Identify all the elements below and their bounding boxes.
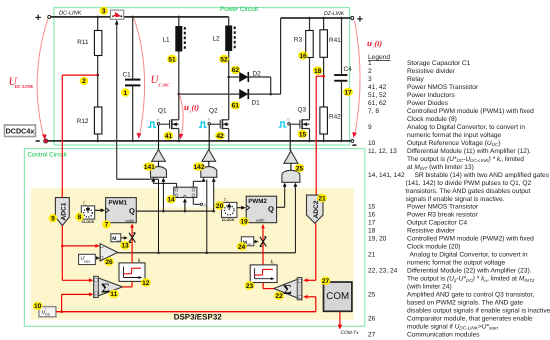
summation block 11 — [94, 276, 123, 297]
white notch in DSP background around SR bistable — [160, 188, 214, 207]
svg-text:15: 15 — [299, 131, 307, 138]
wire: PWM2 width input red with limiter 24 — [262, 226, 264, 265]
wire: amplifier 12 output through limiter 13 to PWM1 — [131, 225, 133, 263]
limiter 13 symbol — [129, 233, 135, 243]
marker 14 — [166, 195, 176, 203]
svg-text:3: 3 — [102, 8, 106, 15]
wire: SR constant 1 input — [192, 198, 194, 205]
svg-text:C-DC: C-DC — [159, 83, 171, 88]
wire: AND25 input arrows — [284, 185, 286, 208]
svg-text:COM-Tx: COM-Tx — [341, 330, 360, 336]
svg-text:11, 12, 13: 11, 12, 13 — [368, 148, 397, 155]
svg-text:10: 10 — [34, 303, 42, 310]
svg-text:Power Diodes: Power Diodes — [407, 100, 449, 107]
capacitor C1 — [132, 17, 134, 79]
wire: ADC2 output into summator 22 — [315, 223, 317, 280]
svg-text:1: 1 — [123, 90, 127, 97]
svg-text:DSP3/ESP32: DSP3/ESP32 — [174, 313, 223, 322]
limit box M_INT — [111, 234, 121, 242]
svg-text:142: 142 — [193, 164, 204, 171]
svg-text:DC-LINK: DC-LINK — [14, 84, 34, 89]
svg-text:23: 23 — [246, 283, 254, 290]
wire: AND141 input arrows — [152, 180, 154, 184]
svg-text:Control Circuit: Control Circuit — [28, 152, 67, 159]
gate pulse waveform for Q2 — [199, 122, 207, 127]
svg-text:7, 8: 7, 8 — [368, 108, 379, 115]
svg-text:u: u — [367, 38, 372, 48]
wire: bottom negative rail — [48, 140, 352, 142]
svg-text:41, 42: 41, 42 — [368, 84, 387, 91]
svg-text:DC: DC — [45, 312, 50, 316]
svg-text:PWM2: PWM2 — [248, 198, 267, 205]
wire: SR clock riser from PWM1 Q — [184, 202, 186, 212]
svg-text:(t): (t) — [192, 103, 200, 112]
marker 10 — [33, 302, 43, 310]
marker 11 — [109, 290, 119, 298]
svg-text:based on PWM2 signals. The AND: based on PWM2 signals. The AND gate — [407, 300, 523, 307]
AND gate 25 — [290, 163, 292, 171]
svg-text:19: 19 — [240, 219, 248, 226]
svg-text:13: 13 — [121, 243, 129, 250]
svg-text:26: 26 — [368, 316, 376, 323]
marker 18 — [313, 66, 323, 74]
svg-text:17: 17 — [344, 89, 352, 96]
svg-text:+: + — [35, 12, 41, 24]
Power Circuit green border box — [54, 8, 350, 145]
inductor L2 — [228, 17, 230, 26]
svg-text:Power Inductors: Power Inductors — [407, 92, 455, 99]
svg-text:18: 18 — [368, 228, 376, 235]
wire: summator 11 output to amplifier 12 — [123, 286, 133, 288]
marker 24 — [237, 242, 247, 250]
wire: PWM1 Q output line — [136, 210, 213, 212]
svg-text:62: 62 — [232, 67, 240, 74]
transistor Q3 — [287, 107, 309, 130]
svg-text:24: 24 — [238, 244, 246, 251]
svg-text:Differential Module (22) with: Differential Module (22) with Amplifier … — [407, 268, 532, 275]
svg-text:14: 14 — [167, 197, 175, 204]
svg-text:25: 25 — [296, 165, 304, 172]
svg-text:+: + — [299, 295, 301, 299]
svg-text:DZ-LINK: DZ-LINK — [324, 11, 345, 17]
marker 2 — [80, 77, 89, 85]
svg-text:Clock module (8): Clock module (8) — [407, 116, 457, 123]
svg-text:Σ: Σ — [283, 282, 292, 297]
svg-text:16: 16 — [299, 53, 307, 60]
DCDC4x module label box — [5, 125, 36, 137]
minus terminal right — [351, 140, 354, 143]
marker 141 — [143, 162, 155, 170]
svg-text:Output Reference Voltage (UDC​: Output Reference Voltage (UDC​) — [407, 140, 501, 147]
svg-text:61: 61 — [232, 103, 240, 110]
svg-text:C1: C1 — [123, 72, 132, 79]
svg-text:+: + — [357, 13, 363, 25]
svg-text:G: G — [287, 117, 289, 121]
svg-text:Σ: Σ — [101, 280, 110, 295]
resistor R42 — [320, 107, 328, 134]
amplifier 12 k_i — [119, 263, 145, 282]
marker 23 — [245, 281, 255, 289]
svg-text:D1: D1 — [252, 100, 261, 107]
svg-text:Power NMOS Transistor: Power NMOS Transistor — [407, 204, 479, 211]
svg-text:int2: int2 — [247, 243, 252, 246]
capacitor C4 — [341, 18, 343, 74]
svg-text:22: 22 — [275, 293, 283, 300]
gate pulse waveform for Q1 — [148, 122, 156, 127]
wire: Q2 source to rail — [228, 129, 230, 141]
marker 26 — [104, 258, 114, 266]
svg-text:9: 9 — [368, 124, 372, 131]
svg-text:(with limiter 24): (with limiter 24) — [407, 284, 452, 291]
amplifier 23 k_u — [250, 265, 277, 283]
svg-text:module signal if UDC-LINK​>U*s: module signal if UDC-LINK​>U*start​ — [407, 323, 499, 330]
svg-text:(t): (t) — [375, 39, 383, 48]
svg-text:COM: COM — [326, 291, 349, 302]
reference box U*start — [79, 254, 96, 264]
wire: clock20 to PWM2 — [237, 207, 242, 209]
AND gate 142 — [208, 161, 210, 168]
wire: Q1 source to rail — [178, 129, 180, 141]
svg-text:R42: R42 — [329, 114, 341, 121]
wire: diode outputs to DZ-LINK rail — [248, 93, 280, 95]
svg-text:22, 23, 24: 22, 23, 24 — [368, 268, 398, 275]
marker 42 — [215, 132, 225, 140]
svg-text:7: 7 — [105, 222, 109, 229]
svg-text:at MINT​ (with limiter 13): at MINT​ (with limiter 13) — [407, 164, 474, 171]
svg-text:DC-LINK: DC-LINK — [59, 11, 82, 17]
wire: red bus riser into summator 22 — [315, 297, 317, 312]
marker 51 — [167, 55, 177, 63]
svg-text:Communication modules: Communication modules — [407, 331, 480, 338]
resistor R41 — [323, 18, 325, 30]
marker 20 — [215, 201, 225, 209]
svg-text:C4: C4 — [344, 66, 353, 73]
wire: PWM2 Q output to AND25 — [277, 206, 285, 208]
wire: relay enable branch — [117, 178, 159, 180]
svg-text:R41: R41 — [329, 37, 341, 44]
summation block 22 — [274, 278, 302, 300]
svg-text:Power NMOS Transistor: Power NMOS Transistor — [407, 84, 479, 91]
marker 13 — [120, 241, 130, 249]
svg-text:Q: Q — [129, 206, 135, 215]
svg-text:Differential Module (11) with: Differential Module (11) with Amplifier … — [407, 148, 531, 155]
svg-text:transistors. The AND gates dis: transistors. The AND gates disables outp… — [406, 188, 531, 195]
resistor R12 — [94, 107, 102, 134]
gate pulse waveform for Q3 — [279, 122, 287, 127]
relay 3 (box with red switch symbol) — [110, 10, 123, 19]
svg-text:3: 3 — [368, 76, 372, 83]
svg-text:18: 18 — [314, 68, 322, 75]
svg-text:Q1: Q1 — [158, 107, 167, 114]
svg-text:disables output signals if ena: disables output signals if enable signal… — [407, 308, 550, 315]
reference box U*DC (10) — [39, 307, 56, 317]
comparator 26 — [100, 244, 118, 261]
svg-text:16: 16 — [368, 212, 376, 219]
wire: output divider tap (18) red sense line — [316, 75, 323, 77]
marker 142 — [193, 162, 205, 170]
marker 41 — [164, 132, 174, 140]
limit box M_INT2 — [241, 237, 254, 246]
svg-text:Resistive divider: Resistive divider — [407, 68, 456, 75]
svg-text:CLOCK: CLOCK — [222, 218, 235, 222]
marker 8 — [75, 213, 84, 221]
wire: summator 22 output to amplifier 23 — [263, 288, 274, 290]
wire: U*DC red bus — [56, 311, 316, 313]
svg-text:Power R3 break resistor: Power R3 break resistor — [407, 212, 479, 219]
driver buffer 142 — [202, 150, 216, 162]
svg-text:Comparator module, that genera: Comparator module, that generates enable — [407, 316, 533, 323]
svg-text:Storage Capacitor C1: Storage Capacitor C1 — [407, 60, 471, 67]
svg-text:20: 20 — [216, 203, 224, 210]
voltage arc u_s(t) (switch voltage) — [180, 95, 184, 135]
marker 19 — [239, 217, 249, 225]
wire: SR Qbar to AND142 — [192, 181, 194, 187]
svg-text:Resistive divider: Resistive divider — [407, 228, 456, 235]
marker 3 — [99, 7, 108, 15]
clock module 20 (fixed clock for PWM2) — [222, 202, 237, 217]
wire: DZ-LINK top rail right — [281, 17, 351, 19]
wire: U*DC to summator 11 — [61, 294, 63, 311]
svg-text:G: G — [208, 117, 210, 121]
svg-text:52: 52 — [220, 56, 228, 63]
node divider tap junction — [96, 74, 99, 77]
marker 17 — [343, 88, 353, 96]
marker 27 — [321, 277, 331, 285]
marker 21 — [317, 194, 327, 202]
wire: Q3 source to rail — [309, 129, 311, 141]
svg-text:14, 141, 142: 14, 141, 142 — [368, 172, 405, 179]
PWM module PWM1 (7) — [106, 198, 137, 223]
clock module 8 (fixed clock for PWM1) — [81, 206, 94, 219]
wire: buffer25 output to Q3 gate — [289, 125, 291, 151]
svg-text:+: + — [95, 292, 97, 296]
svg-text:19, 20: 19, 20 — [368, 236, 387, 243]
marker 22 — [274, 292, 284, 300]
wire: relay control line from comparator 26 — [116, 24, 118, 179]
svg-text:Clock module (20): Clock module (20) — [407, 244, 461, 251]
marker 7 — [102, 220, 111, 228]
PWM module PWM2 (19) — [246, 196, 276, 223]
inductor L1 — [178, 17, 180, 26]
ADC module ADC2 (21) — [307, 195, 324, 223]
svg-text:Controlled PWM module (PWM1) w: Controlled PWM module (PWM1) with fixed — [407, 108, 534, 115]
wire: branch to comparator 26 — [61, 245, 64, 248]
svg-text:51, 52: 51, 52 — [368, 92, 387, 99]
wire: D2 anode branch from L2/Q2 node — [229, 76, 240, 78]
svg-text:numeric format the input volta: numeric format the input voltage — [407, 132, 502, 139]
wire: D1 anode branch from L1/Q1 node — [179, 93, 239, 95]
svg-text:61, 62: 61, 62 — [368, 100, 387, 107]
svg-text:ADC2: ADC2 — [313, 200, 320, 218]
svg-text:-: - — [299, 279, 300, 283]
svg-text:-: - — [95, 278, 96, 282]
wire: clock8 to PWM1 — [95, 209, 102, 211]
marker 25 — [295, 164, 305, 172]
svg-text:G: G — [157, 117, 159, 121]
svg-text:int: int — [117, 239, 120, 242]
svg-text:signals if enable signal is in: signals if enable signal is inactive. — [406, 196, 505, 203]
svg-text:17: 17 — [368, 220, 376, 227]
resistor divider chain R11/R12 vertical wire — [97, 17, 99, 31]
marker 12 — [141, 278, 151, 286]
svg-text:51: 51 — [168, 56, 176, 63]
svg-text:numeric format the output volt: numeric format the output voltage — [407, 260, 506, 267]
svg-text:Output Capacitor C4: Output Capacitor C4 — [407, 220, 467, 227]
svg-text:u: u — [184, 102, 189, 112]
svg-text:27: 27 — [322, 278, 330, 285]
svg-text:41: 41 — [165, 133, 173, 140]
svg-text:R12: R12 — [77, 118, 89, 125]
marker 15 — [298, 130, 308, 138]
svg-text:The output is (U*DC​-UDC-LINK​: The output is (U*DC​-UDC-LINK​) * ki​, l… — [407, 156, 524, 163]
driver buffer 141 — [152, 150, 166, 162]
limiter 24 symbol — [260, 237, 266, 247]
diode D1 — [239, 89, 248, 99]
svg-text:ADC1: ADC1 — [61, 202, 68, 220]
marker 52 — [219, 55, 229, 63]
wire: DC-LINK top rail — [51, 16, 111, 18]
svg-text:1: 1 — [368, 60, 372, 67]
svg-text:SR bistable (14) with two AND: SR bistable (14) with two AND amplified … — [415, 172, 550, 179]
svg-text:width: width — [126, 219, 134, 223]
communication module COM (27) — [324, 282, 352, 311]
svg-text:141: 141 — [144, 164, 155, 171]
DSP3/ESP32 yellow background — [31, 188, 354, 319]
marker 61 — [230, 101, 240, 109]
svg-text:Power Circuit: Power Circuit — [220, 6, 258, 13]
svg-text:(141, 142) to divide PWM pulse: (141, 142) to divide PWM pulses to Q1, Q… — [406, 180, 532, 187]
marker 9 — [49, 214, 58, 222]
svg-text:Q3: Q3 — [298, 107, 307, 114]
AND gate 141 — [158, 161, 160, 168]
wire: COM-Tx output — [339, 312, 341, 326]
marker 16 — [298, 51, 308, 59]
voltage arc U C-DC (capacitor voltage) — [134, 18, 145, 136]
svg-text:12: 12 — [142, 280, 150, 287]
wire: buffer142 output to Q2 gate — [208, 125, 210, 149]
ADC module ADC1 (9) — [55, 198, 69, 226]
svg-text:10: 10 — [368, 140, 376, 147]
svg-text:R3: R3 — [294, 37, 303, 44]
svg-text:15: 15 — [368, 204, 376, 211]
svg-text:width: width — [256, 218, 264, 222]
svg-text:Analog to Digital Convertor, t: Analog to Digital Convertor, to convert … — [407, 124, 525, 131]
wire: buffer141 output to Q1 gate — [158, 125, 160, 149]
transistor Q2 — [208, 107, 229, 129]
marker 62 — [231, 66, 241, 74]
diode D2 — [239, 72, 248, 82]
minus terminal left — [36, 140, 40, 142]
transistor Q1 — [157, 107, 179, 129]
svg-text:DCDC4x: DCDC4x — [6, 127, 35, 136]
wire: D2 cathode to output riser — [248, 76, 270, 78]
svg-text:L2: L2 — [213, 36, 221, 43]
svg-text:start: start — [84, 260, 90, 264]
svg-text:26: 26 — [105, 259, 113, 266]
svg-text:9: 9 — [51, 216, 55, 223]
svg-text:Q: Q — [268, 204, 274, 213]
svg-text:Analog to Digital Convertor, t: Analog to Digital Convertor, to convert … — [410, 252, 528, 259]
svg-text:R11: R11 — [77, 39, 89, 46]
wire: AND142 input arrows — [203, 180, 205, 182]
voltage arc u_r(t) (output voltage) — [355, 21, 361, 135]
wire: SR Q to AND141 — [176, 183, 178, 187]
svg-text:2: 2 — [82, 78, 86, 85]
resistor R11 — [94, 31, 102, 56]
svg-text:L1: L1 — [163, 37, 171, 44]
svg-text:Q2: Q2 — [209, 107, 218, 114]
svg-text:PWM1: PWM1 — [109, 199, 128, 206]
svg-text:21: 21 — [318, 195, 326, 202]
svg-text:Relay: Relay — [407, 76, 425, 83]
svg-text:8: 8 — [78, 214, 82, 221]
svg-text:42: 42 — [216, 133, 224, 140]
svg-text:21: 21 — [368, 252, 376, 259]
Control Circuit green border box — [24, 149, 364, 327]
svg-text:11: 11 — [110, 291, 117, 298]
svg-text:2: 2 — [368, 68, 372, 75]
voltage arc U DC-LINK (left input voltage) — [37, 19, 48, 138]
svg-text:CLOCK: CLOCK — [82, 220, 95, 224]
svg-text:Amplified AND gate to control: Amplified AND gate to control Q3 transis… — [407, 292, 534, 299]
wire: ADC1 output red — [61, 226, 63, 281]
svg-text:25: 25 — [368, 292, 376, 299]
svg-text:27: 27 — [368, 331, 376, 338]
SR bistable module 14 — [174, 187, 197, 197]
wire: input divider tap (2) red sense line — [62, 74, 97, 76]
wire: enable line from comparator 26 — [118, 252, 296, 254]
marker 1 — [121, 88, 130, 96]
driver buffer 25 — [284, 151, 298, 163]
svg-text:Controlled PWM module (PWM2) w: Controlled PWM module (PWM2) with fixed — [407, 236, 534, 243]
resistor R3 — [309, 18, 311, 31]
